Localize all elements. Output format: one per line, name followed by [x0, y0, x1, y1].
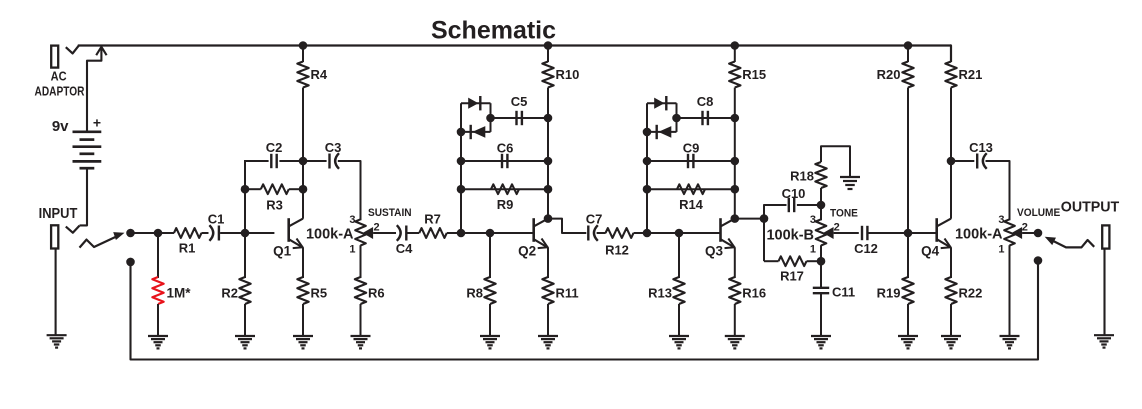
svg-text:R15: R15: [742, 67, 766, 82]
wire base node to R2: [244, 233, 246, 278]
svg-text:C6: C6: [497, 141, 514, 156]
output signal arrow: [1052, 240, 1095, 247]
resistor R2: [239, 277, 250, 304]
wire battery negative to input jack: [80, 168, 88, 225]
capacitor C10: [788, 198, 790, 212]
svg-text:R9: R9: [497, 197, 514, 212]
wire rail to R10: [547, 46, 549, 63]
wire C2 right: [279, 160, 303, 162]
node right rail junction: [544, 157, 553, 166]
wire R5 to ground: [302, 304, 304, 336]
capacitor C11: [813, 287, 829, 289]
resistor R22: [945, 277, 956, 304]
node R8 top: [486, 229, 495, 238]
wire R9 row: [461, 188, 548, 190]
wire volume wiper to output node: [1022, 232, 1034, 234]
node diode loop output: [486, 114, 495, 123]
svg-text:R4: R4: [311, 67, 328, 82]
wire R7 to Q2 stage: [447, 232, 461, 234]
wire rail corner to R21: [950, 46, 951, 63]
wire base node up to C2 row: [244, 160, 246, 233]
capacitor C6: [501, 154, 503, 168]
svg-text:3: 3: [998, 214, 1004, 226]
svg-text:Q3: Q3: [705, 244, 724, 259]
wire R8 to ground: [489, 304, 491, 336]
wire R2 to ground: [244, 304, 246, 336]
transistor Q2: [532, 218, 535, 242]
ground R13: [669, 335, 689, 337]
wire R18 top to ground: [821, 146, 850, 177]
node diode loop output: [672, 114, 681, 123]
wire C1 to Q1 base node: [220, 232, 245, 234]
wire C9 row: [647, 160, 735, 162]
wire R13 down: [678, 233, 680, 278]
diode D2: [470, 125, 472, 139]
node Q3 collector: [731, 214, 740, 223]
wire Q1 base: [245, 232, 274, 234]
svg-text:R12: R12: [605, 243, 629, 258]
svg-text:R2: R2: [221, 286, 238, 301]
resistor R14: [677, 184, 705, 194]
capacitor C1: [218, 226, 220, 241]
node input junction: [126, 229, 135, 238]
svg-text:R10: R10: [556, 67, 580, 82]
wire R15 to Q3 collector: [734, 88, 736, 219]
svg-text:OUTPUT: OUTPUT: [1061, 199, 1120, 215]
wire tone top to C10: [764, 204, 787, 206]
AC adaptor jack contact: [66, 46, 79, 54]
svg-text:R21: R21: [959, 67, 983, 82]
svg-text:C13: C13: [969, 140, 993, 155]
node Q1 base: [241, 229, 250, 238]
wire R12 to Q3 stage: [634, 232, 648, 234]
resistor R13: [673, 277, 684, 304]
svg-text:Q1: Q1: [273, 244, 292, 259]
input jack tip contact: [66, 226, 80, 233]
wire diode cell left rail: [646, 103, 648, 233]
capacitor C4: [405, 226, 407, 241]
wire R11 to ground: [547, 304, 549, 336]
svg-text:R11: R11: [556, 286, 579, 301]
svg-text:2: 2: [834, 222, 840, 234]
svg-text:R16: R16: [742, 286, 766, 301]
svg-text:100k-B: 100k-B: [766, 228, 814, 244]
wire Q4 emitter to R22: [950, 247, 952, 278]
ground R22: [941, 335, 961, 337]
diode D1: [468, 98, 478, 109]
svg-text:1: 1: [998, 244, 1004, 256]
svg-text:C9: C9: [683, 141, 700, 156]
svg-text:R17: R17: [780, 269, 804, 284]
capacitor C2: [270, 154, 272, 168]
wire R13 to ground: [678, 304, 680, 336]
node left rail junction: [643, 185, 652, 194]
wire battery positive: [87, 48, 101, 132]
svg-text:Schematic: Schematic: [431, 17, 556, 45]
wire rail to R15: [734, 46, 736, 63]
resistor 1M* (red): [152, 277, 163, 304]
resistor R16: [729, 277, 740, 304]
output jack sleeve wire: [1103, 249, 1105, 336]
transistor Q3: [719, 218, 722, 242]
svg-text:100k-A: 100k-A: [955, 227, 1003, 243]
node left rail junction: [457, 185, 466, 194]
svg-text:R6: R6: [368, 286, 385, 301]
wire R21 to Q4 collector: [950, 88, 952, 219]
svg-text:C11: C11: [832, 285, 855, 300]
wire C5 row: [491, 117, 549, 119]
input jack J1: [51, 225, 58, 248]
resistor R19: [902, 277, 913, 304]
resistor R15: [729, 62, 740, 88]
svg-text:R18: R18: [790, 169, 814, 184]
node output junction: [1034, 229, 1043, 238]
resistor R9: [491, 184, 519, 194]
svg-text:2: 2: [1022, 222, 1028, 234]
ground input jack: [47, 334, 67, 336]
wire R4 to Q1 collector: [302, 88, 304, 219]
svg-text:C4: C4: [396, 241, 413, 256]
wire R3 left: [245, 188, 261, 190]
wire C10 to pot: [797, 204, 821, 206]
resistor R21: [945, 62, 956, 88]
wire Q2 emitter to R11: [547, 247, 549, 278]
svg-text:Q2: Q2: [518, 244, 536, 259]
node left rail junction: [643, 157, 652, 166]
svg-text:C7: C7: [586, 212, 603, 227]
svg-text:ADAPTOR: ADAPTOR: [35, 84, 85, 98]
wire volume pot to ground: [1009, 245, 1011, 336]
svg-text:100k-A: 100k-A: [306, 227, 354, 243]
capacitor C9: [687, 154, 689, 168]
node right rail junction: [544, 185, 553, 194]
output jack J2: [1102, 225, 1109, 248]
node R15 top on rail: [731, 41, 740, 50]
ground output jack: [1094, 334, 1114, 336]
wire base node to R19: [907, 233, 909, 278]
wire C12 to Q4 base: [868, 232, 937, 234]
svg-text:C12: C12: [854, 241, 878, 256]
wire Q3 emitter to R16: [734, 247, 736, 278]
svg-text:C10: C10: [782, 186, 806, 201]
resistor R20: [902, 62, 913, 88]
resistor R7: [419, 228, 447, 238]
wire node to 1M: [157, 233, 159, 278]
wire diode loop top: [461, 102, 491, 104]
node tone pot top: [817, 201, 826, 210]
capacitor C3: [328, 154, 330, 169]
svg-text:R5: R5: [311, 286, 328, 301]
resistor R6: [355, 277, 366, 304]
wire diode loop bottom: [647, 131, 677, 133]
wire C7 to R12: [597, 232, 606, 234]
node left rail junction: [457, 157, 466, 166]
wire sustain wiper to C4: [373, 232, 396, 234]
wire tone wiper to C12: [834, 232, 859, 234]
battery B1 9v: [73, 130, 102, 133]
wire R16 to ground: [734, 304, 736, 336]
svg-text:+: +: [93, 115, 101, 131]
resistor R17: [779, 256, 807, 266]
ground R2: [235, 335, 255, 337]
svg-text:2: 2: [374, 222, 380, 234]
svg-text:R3: R3: [266, 198, 283, 213]
wire 1M to ground: [157, 304, 159, 336]
svg-text:R1: R1: [179, 241, 196, 256]
node bypass input: [126, 258, 135, 267]
node right rail junction: [731, 185, 740, 194]
wire diode loop right: [490, 103, 492, 132]
svg-text:R19: R19: [877, 286, 901, 301]
transistor Q1: [287, 218, 290, 242]
wire Q3 collector to tone stage: [735, 218, 764, 220]
potentiometer VOLUME 100k-A: [1004, 219, 1015, 245]
node right rail junction: [731, 114, 740, 123]
resistor R10: [542, 62, 553, 88]
wire C4 to R7: [408, 232, 420, 234]
wire diode loop bottom: [461, 131, 491, 133]
svg-text:3: 3: [349, 214, 355, 226]
wire C2 left: [244, 160, 269, 162]
node R3 left: [241, 185, 250, 194]
resistor R1: [174, 228, 202, 238]
wire R14 row: [647, 188, 735, 190]
wire Q2 base row: [461, 232, 534, 234]
node Q2 collector: [544, 214, 553, 223]
input jack sleeve wire: [55, 249, 57, 336]
svg-text:9v: 9v: [52, 118, 69, 135]
svg-text:TONE: TONE: [830, 207, 858, 219]
node left rail junction: [457, 229, 466, 238]
node Q4 base R19 R20: [904, 229, 913, 238]
capacitor C13: [976, 154, 978, 169]
wire V+ rail: [78, 44, 951, 46]
svg-text:C3: C3: [325, 140, 342, 155]
wire R17 left: [764, 260, 779, 262]
wire C8 row: [677, 117, 735, 119]
svg-text:INPUT: INPUT: [39, 204, 78, 221]
svg-text:R8: R8: [466, 286, 483, 301]
ground R6: [351, 335, 371, 337]
resistor R5: [297, 277, 308, 304]
svg-text:C2: C2: [266, 140, 283, 155]
wire diode loop right: [676, 103, 678, 132]
wire sustain pot to R6: [360, 245, 362, 278]
wire rail to R20: [907, 46, 909, 63]
node right rail junction: [544, 114, 553, 123]
node left rail junction: [643, 229, 652, 238]
resistor R11: [542, 277, 553, 304]
wire bypass input to output: [131, 261, 1039, 360]
wire input to R1: [131, 232, 175, 234]
wire C6 row: [461, 160, 548, 162]
capacitor C8: [701, 111, 703, 125]
wire R19 to ground: [907, 304, 909, 336]
wire R1 to C1: [201, 232, 208, 234]
resistor R12: [606, 228, 634, 238]
wire R22 to ground: [950, 304, 952, 336]
svg-text:AC: AC: [51, 69, 67, 84]
svg-text:1M*: 1M*: [167, 286, 192, 301]
wire R20 to base node: [907, 88, 909, 234]
diode D4: [656, 125, 658, 139]
svg-text:SUSTAIN: SUSTAIN: [368, 207, 412, 219]
svg-text:R14: R14: [679, 197, 704, 212]
wire Q2 collector to C7: [548, 219, 586, 233]
wire tone pot bottom: [820, 245, 822, 261]
wire R18 bottom to pot top: [820, 188, 822, 220]
capacitor C5: [515, 111, 517, 125]
resistor R3: [261, 184, 289, 194]
potentiometer SUSTAIN 100k-A: [355, 219, 366, 245]
ground volume pot: [1000, 335, 1020, 337]
node left rail junction: [643, 128, 652, 137]
wire R3 right: [289, 188, 303, 190]
transistor Q4: [935, 218, 938, 242]
resistor R8: [484, 277, 495, 304]
wire R17 right: [807, 260, 822, 262]
wire rail to R4: [302, 46, 304, 63]
arrow battery plug to rail: [96, 47, 106, 55]
ground R16: [725, 335, 745, 337]
node Q1 collector C2C3 junction: [299, 157, 308, 166]
ground R8: [480, 335, 500, 337]
wire C13 left: [951, 160, 974, 162]
node 1M junction: [154, 229, 163, 238]
capacitor C7: [587, 226, 589, 241]
resistor R18: [815, 162, 826, 188]
AC adaptor jack J3: [51, 46, 58, 68]
potentiometer TONE 100k-B: [816, 219, 827, 245]
node tone pot bottom: [817, 257, 826, 266]
input signal arrow: [80, 236, 118, 248]
node Q4 collector C13 junction: [947, 157, 956, 166]
wire C3 left: [303, 160, 327, 162]
ground 1M: [148, 335, 168, 337]
wire R8 down: [489, 233, 491, 278]
diode D3: [654, 98, 664, 109]
node R3 right: [299, 185, 308, 194]
svg-text:R7: R7: [424, 212, 441, 227]
ground C11: [811, 335, 831, 337]
wire Q3 base row: [647, 232, 721, 234]
node bypass output: [1034, 256, 1043, 265]
wire diode cell left rail: [460, 103, 462, 233]
node tone input: [760, 214, 769, 223]
svg-text:R22: R22: [959, 286, 983, 301]
svg-text:C5: C5: [511, 94, 528, 109]
svg-text:C8: C8: [697, 94, 714, 109]
wire C13 to volume pot: [986, 161, 1010, 220]
ground R18: [840, 176, 860, 178]
svg-text:VOLUME: VOLUME: [1017, 207, 1060, 219]
resistor R4: [297, 62, 308, 88]
svg-text:3: 3: [810, 214, 816, 226]
node R10 top on rail: [544, 41, 553, 50]
node R4 top on rail: [299, 41, 308, 50]
capacitor C12: [861, 226, 863, 240]
node right rail junction: [731, 157, 740, 166]
wire R10 to Q2 collector: [547, 88, 549, 219]
wire R6 to ground: [360, 304, 362, 336]
wire tone input column: [763, 204, 765, 261]
svg-text:C1: C1: [208, 212, 225, 227]
svg-text:R13: R13: [648, 286, 672, 301]
svg-text:Q4: Q4: [921, 244, 940, 259]
node R13 top: [675, 229, 684, 238]
wire tone pot to C11: [820, 261, 822, 287]
svg-text:1: 1: [349, 244, 355, 256]
wire C3 to sustain pot: [338, 161, 361, 220]
svg-text:R20: R20: [877, 67, 901, 82]
ground R5: [293, 335, 313, 337]
wire Q1 emitter to R5: [302, 247, 304, 278]
node R20 top on rail: [904, 41, 913, 50]
ground R11: [538, 335, 558, 337]
svg-text:1: 1: [810, 244, 816, 256]
wire C11 to ground: [820, 294, 822, 336]
ground R19: [898, 335, 918, 337]
node left rail junction: [457, 128, 466, 137]
wire diode loop top: [647, 102, 677, 104]
